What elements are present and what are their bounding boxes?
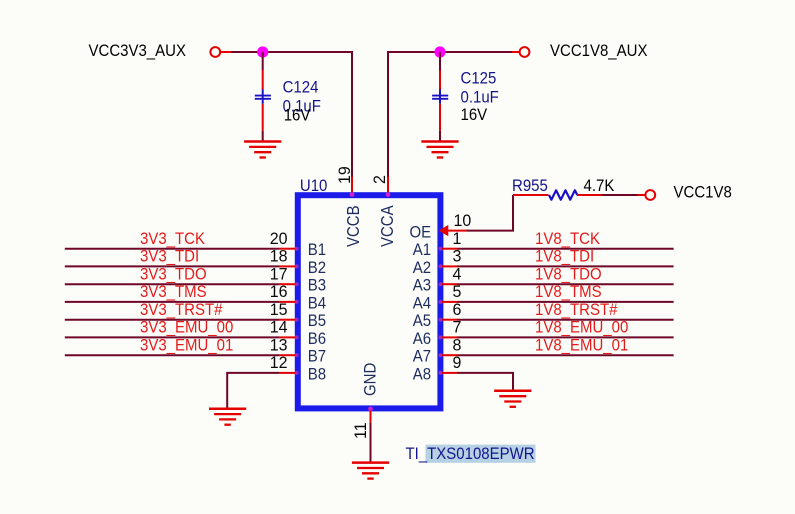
part value highlight box — [426, 445, 536, 463]
svg-text:4.7K: 4.7K — [584, 177, 615, 195]
pin 15 stub B5 — [279, 319, 295, 321]
svg-text:VCC1V8_AUX: VCC1V8_AUX — [550, 43, 648, 61]
pin name VCCA — [377, 205, 398, 247]
terminal circle VCC1V8 — [645, 190, 655, 200]
pin number 10 — [454, 212, 472, 230]
svg-text:13: 13 — [270, 336, 288, 354]
terminal stub VCC3V3_AUX — [221, 51, 232, 53]
pin 1 stub A1 — [442, 248, 457, 250]
pin number 20 — [270, 230, 288, 248]
svg-text:1V8_TRST#: 1V8_TRST# — [535, 301, 618, 319]
value 16V of C124 — [284, 107, 311, 125]
pin name B2 — [308, 259, 326, 277]
OE input arrow — [439, 225, 449, 236]
svg-text:B3: B3 — [308, 277, 327, 295]
svg-text:VCCB: VCCB — [343, 205, 364, 247]
svg-text:TI_TXS0108EPWR: TI_TXS0108EPWR — [406, 446, 535, 464]
net label 1V8_TCK — [535, 230, 600, 248]
wire net 3V3_EMU_00 — [65, 336, 279, 338]
svg-text:18: 18 — [270, 247, 288, 265]
pin name A5 — [413, 313, 432, 331]
pin 3 stub A2 — [442, 265, 457, 267]
pin name B8 — [308, 366, 327, 384]
svg-text:7: 7 — [453, 318, 462, 336]
pin 6 stub A5 — [442, 319, 457, 321]
ground below C124 — [244, 142, 281, 158]
svg-text:3: 3 — [453, 247, 462, 265]
wire junction down to C125 — [439, 52, 441, 70]
capacitor C124 — [255, 70, 271, 131]
OE pin stub — [448, 230, 467, 232]
label U10 — [300, 178, 328, 196]
pin number 3 — [453, 247, 462, 265]
pin 19 stub VCCB — [351, 177, 353, 194]
pin name OE — [409, 224, 431, 242]
wire net 1V8_EMU_00 — [457, 336, 674, 338]
svg-text:20: 20 — [270, 230, 288, 248]
svg-text:3V3_TCK: 3V3_TCK — [140, 230, 205, 248]
svg-text:A2: A2 — [413, 259, 431, 277]
junction dot A — [257, 46, 268, 57]
wire OE to resistor R955 — [467, 195, 514, 231]
svg-text:2: 2 — [371, 175, 389, 184]
ground below A8 pin 9 — [494, 391, 531, 407]
svg-text:5: 5 — [453, 283, 462, 301]
wire net 1V8_TCK — [457, 248, 674, 250]
net label 3V3_EMU_00 — [140, 319, 234, 337]
wire net 3V3_TDO — [65, 283, 279, 285]
part value TI_TXS0108EPWR — [406, 446, 535, 464]
net label 1V8_TMS — [535, 283, 602, 301]
svg-text:16: 16 — [270, 283, 288, 301]
svg-text:U10: U10 — [300, 178, 328, 196]
pin number 6 — [453, 301, 462, 319]
svg-text:A8: A8 — [413, 366, 432, 384]
svg-text:A5: A5 — [413, 313, 432, 331]
svg-text:B8: B8 — [308, 366, 327, 384]
svg-text:10: 10 — [454, 212, 472, 230]
pin name A1 — [413, 242, 431, 260]
svg-text:16V: 16V — [284, 107, 311, 125]
net label 3V3_TMS — [140, 283, 207, 301]
wire net 1V8_TDO — [457, 283, 674, 285]
wire net 1V8_EMU_01 — [457, 354, 674, 356]
pin number 18 — [270, 247, 288, 265]
pin number 9 — [453, 354, 462, 372]
svg-text:C124: C124 — [283, 79, 319, 97]
wire VCCA pin corner to junction to terminal — [388, 52, 512, 177]
capacitor C125 — [432, 70, 448, 131]
svg-text:VCCA: VCCA — [377, 205, 398, 247]
svg-text:B2: B2 — [308, 259, 326, 277]
svg-text:9: 9 — [453, 354, 462, 372]
label C125 — [461, 70, 497, 88]
terminal stub VCC1V8_AUX — [512, 51, 519, 53]
svg-text:3V3_EMU_00: 3V3_EMU_00 — [140, 319, 234, 337]
wire junction to VCCB pin, corner down — [263, 52, 352, 177]
value 16V of C125 — [461, 106, 488, 124]
junction dot pin 11 at border — [368, 407, 373, 412]
svg-text:1V8_TDO: 1V8_TDO — [535, 266, 602, 284]
pin number 17 — [270, 265, 288, 283]
wire net 3V3_TDI — [65, 265, 279, 267]
svg-text:1V8_EMU_01: 1V8_EMU_01 — [535, 337, 628, 355]
terminal circle VCC3V3_AUX — [210, 47, 220, 57]
ground below B8 — [209, 409, 246, 425]
wire C124 to ground — [262, 131, 264, 142]
pin 11 stub GND — [370, 411, 372, 423]
svg-text:4: 4 — [453, 265, 462, 283]
svg-text:3V3_TDI: 3V3_TDI — [140, 248, 199, 266]
svg-text:3V3_TRST#: 3V3_TRST# — [140, 301, 223, 319]
svg-text:3V3_TDO: 3V3_TDO — [140, 266, 207, 284]
svg-text:3V3_TMS: 3V3_TMS — [140, 283, 207, 301]
svg-text:B7: B7 — [308, 348, 326, 366]
pin number 7 — [453, 318, 462, 336]
pin number 12 — [270, 354, 288, 372]
pin number 8 — [453, 336, 462, 354]
pin name VCCB — [343, 205, 364, 247]
pin name A7 — [413, 348, 431, 366]
net label 3V3_TDO — [140, 266, 207, 284]
pin number 14 — [270, 318, 288, 336]
net label 1V8_TRST# — [535, 301, 618, 319]
pin name A4 — [413, 295, 432, 313]
junction dot pin 19 at border — [350, 192, 355, 197]
svg-text:A4: A4 — [413, 295, 432, 313]
svg-text:A1: A1 — [413, 242, 431, 260]
node VCC1V8_AUX label — [550, 43, 648, 61]
pin name A6 — [413, 330, 432, 348]
label R955 — [512, 177, 548, 195]
net label 1V8_TDO — [535, 266, 602, 284]
wire net 1V8_TDI — [457, 265, 674, 267]
svg-text:VCC1V8: VCC1V8 — [674, 184, 733, 202]
pin number 2 — [371, 175, 389, 184]
wire VCC3V3_AUX terminal to junction — [231, 51, 263, 53]
svg-text:GND: GND — [362, 363, 380, 396]
pin 18 stub B2 — [279, 265, 295, 267]
pin 2 stub VCCA — [387, 177, 389, 194]
svg-text:11: 11 — [352, 422, 370, 439]
svg-text:VCC3V3_AUX: VCC3V3_AUX — [89, 42, 187, 60]
pin 7 stub A6 — [442, 336, 457, 338]
svg-text:1V8_TMS: 1V8_TMS — [535, 283, 602, 301]
pin number 19 — [336, 166, 354, 184]
pin name B3 — [308, 277, 327, 295]
wire C125 to ground — [439, 131, 441, 142]
pin 9 stub A8 — [442, 372, 457, 374]
svg-text:6: 6 — [453, 301, 462, 319]
pin 17 stub B3 — [279, 283, 295, 285]
pin name B7 — [308, 348, 326, 366]
pin name A2 — [413, 259, 431, 277]
svg-text:B6: B6 — [308, 330, 327, 348]
net label 3V3_EMU_01 — [140, 337, 233, 355]
svg-text:16V: 16V — [461, 106, 488, 124]
value 0.1uF of C124 — [283, 98, 321, 116]
terminal stub VCC1V8 — [638, 194, 646, 196]
pin number 13 — [270, 336, 288, 354]
pin name B6 — [308, 330, 327, 348]
wire net 3V3_TCK — [65, 248, 279, 250]
pin number 16 — [270, 283, 288, 301]
svg-text:R955: R955 — [512, 177, 548, 195]
svg-text:1V8_EMU_00: 1V8_EMU_00 — [535, 319, 629, 337]
pin 13 stub B7 — [279, 354, 295, 356]
svg-text:A7: A7 — [413, 348, 431, 366]
svg-text:8: 8 — [453, 336, 462, 354]
svg-text:1V8_TCK: 1V8_TCK — [535, 230, 600, 248]
svg-text:17: 17 — [270, 265, 288, 283]
svg-text:C125: C125 — [461, 70, 497, 88]
ground below GND pin — [352, 463, 389, 479]
node VCC1V8 label — [674, 184, 733, 202]
svg-text:15: 15 — [270, 301, 288, 319]
label C124 — [283, 79, 319, 97]
wire net 1V8_TRST# — [457, 319, 674, 321]
svg-text:A3: A3 — [413, 277, 432, 295]
value 0.1uF of C125 — [461, 89, 499, 107]
svg-text:0.1uF: 0.1uF — [461, 89, 499, 107]
pin 20 stub B1 — [279, 248, 295, 250]
net label 3V3_TDI — [140, 248, 199, 266]
pin 4 stub A3 — [442, 283, 457, 285]
IC U10 body — [298, 195, 441, 408]
svg-text:19: 19 — [336, 166, 354, 184]
pin number 4 — [453, 265, 462, 283]
ground below C125 — [421, 142, 458, 158]
pin number 11 — [352, 422, 370, 439]
wire net 3V3_TMS — [65, 301, 279, 303]
net label 1V8_EMU_00 — [535, 319, 629, 337]
svg-text:A6: A6 — [413, 330, 432, 348]
junction dot pin 2 at border — [386, 192, 391, 197]
pin 16 stub B4 — [279, 301, 295, 303]
pin number 15 — [270, 301, 288, 319]
value 4.7K — [584, 177, 615, 195]
pin name A3 — [413, 277, 432, 295]
pin 12 stub B8 — [279, 372, 295, 374]
wire net 1V8_TMS — [457, 301, 674, 303]
svg-text:14: 14 — [270, 318, 288, 336]
svg-text:B5: B5 — [308, 313, 327, 331]
pin name B4 — [308, 295, 327, 313]
wire B8 to ground corner — [227, 373, 279, 409]
net label 3V3_TCK — [140, 230, 205, 248]
svg-text:12: 12 — [270, 354, 288, 372]
svg-text:1: 1 — [453, 230, 462, 248]
pin number 5 — [453, 283, 462, 301]
svg-text:1V8_TDI: 1V8_TDI — [535, 248, 594, 266]
wire net 3V3_TRST# — [65, 319, 279, 321]
terminal circle VCC1V8_AUX — [520, 47, 530, 57]
wire A8 to ground corner — [457, 373, 513, 391]
pin-border junction dots left and right — [295, 247, 443, 375]
wire GND pin to ground — [370, 422, 372, 462]
resistor R955 — [513, 190, 602, 199]
wire net 3V3_EMU_01 — [65, 354, 279, 356]
pin name B1 — [308, 242, 326, 260]
net label 3V3_TRST# — [140, 301, 223, 319]
net label 1V8_EMU_01 — [535, 337, 628, 355]
pin number 1 — [453, 230, 462, 248]
net label 1V8_TDI — [535, 248, 594, 266]
svg-text:3V3_EMU_01: 3V3_EMU_01 — [140, 337, 233, 355]
wire junction down to C124 — [262, 52, 264, 70]
pin 5 stub A4 — [442, 301, 457, 303]
svg-text:B1: B1 — [308, 242, 326, 260]
pin 14 stub B6 — [279, 336, 295, 338]
svg-text:B4: B4 — [308, 295, 327, 313]
wire resistor to VCC1V8 terminal — [602, 194, 638, 196]
pin 8 stub A7 — [442, 354, 457, 356]
pin name B5 — [308, 313, 327, 331]
junction dot B — [434, 46, 445, 57]
pin name GND — [362, 363, 380, 396]
svg-text:OE: OE — [409, 224, 431, 242]
node VCC3V3_AUX label — [89, 42, 187, 60]
pin name A8 — [413, 366, 432, 384]
